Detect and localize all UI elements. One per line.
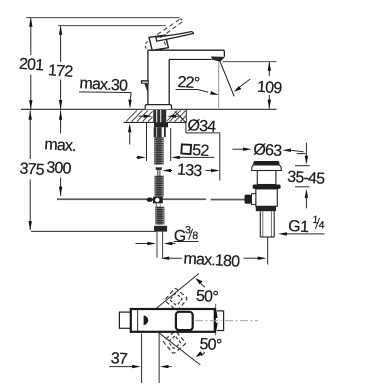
dimension 201 bbox=[18, 18, 44, 110]
hose end nut G3/8 bbox=[154, 226, 167, 232]
plan view body bbox=[131, 309, 215, 332]
svg-text:50°: 50° bbox=[195, 288, 218, 306]
svg-text:50°: 50° bbox=[199, 336, 222, 354]
handle swing dashed arc bbox=[145, 41, 148, 50]
drain flange bbox=[252, 165, 281, 171]
lever blade (solid, lowered) bbox=[156, 32, 194, 42]
water stream line 22deg bbox=[220, 61, 234, 96]
svg-text:Ø34: Ø34 bbox=[187, 117, 217, 136]
dimension arrows hole dia 34 bbox=[139, 115, 182, 118]
threaded shank below nut bbox=[154, 127, 166, 137]
svg-text:109: 109 bbox=[257, 79, 283, 98]
label 22deg with leader arrow bbox=[176, 74, 219, 95]
svg-text:201: 201 bbox=[18, 56, 44, 75]
label G3/8 with arrows bbox=[136, 224, 199, 245]
hose ferrule bbox=[156, 167, 162, 175]
svg-text:37: 37 bbox=[110, 350, 128, 368]
label dia34 with leader bbox=[175, 111, 220, 136]
svg-text:35-45: 35-45 bbox=[287, 169, 326, 188]
dimension dia63 bbox=[232, 141, 303, 160]
lever raised position (dashed) bbox=[157, 19, 183, 38]
countertop cross-section bbox=[21, 109, 277, 122]
plan view centerline bbox=[195, 320, 258, 322]
extension line second (lever tip ref) bbox=[58, 25, 166, 27]
supply hose braid lower bbox=[156, 207, 165, 225]
drain neck bbox=[257, 171, 276, 185]
extension line top (raised lever height ref) bbox=[26, 17, 180, 19]
dimension max.180 bbox=[161, 237, 268, 271]
dimension square52 bbox=[136, 142, 214, 160]
handle base block bbox=[149, 35, 169, 50]
curved pointer arrow to stream bbox=[234, 79, 250, 92]
thread stub below nut bbox=[157, 232, 163, 258]
drain body bbox=[256, 189, 277, 206]
mounting nut below counter bbox=[154, 122, 168, 127]
svg-text:172: 172 bbox=[48, 62, 74, 81]
svg-text:4: 4 bbox=[318, 219, 325, 231]
svg-text:375: 375 bbox=[19, 160, 45, 179]
pop-up rod knob on body bbox=[141, 80, 149, 93]
threaded shank through counter bbox=[153, 110, 166, 123]
svg-text:133: 133 bbox=[177, 161, 203, 180]
svg-text:52: 52 bbox=[192, 142, 210, 160]
plan view spout nose bbox=[119, 312, 130, 328]
drain bottom nut bbox=[256, 206, 276, 211]
supply hose braid middle bbox=[155, 176, 164, 197]
dimension 133 bbox=[162, 134, 219, 181]
svg-text:8: 8 bbox=[192, 230, 199, 242]
pop-up rod bbox=[57, 198, 245, 200]
plan view width arrows bbox=[214, 304, 218, 338]
50deg reference line lower bbox=[158, 332, 223, 365]
plan view end bracket bbox=[217, 311, 224, 331]
drain tailpipe bbox=[260, 211, 274, 237]
base plate bbox=[145, 105, 171, 110]
label max.30 with leader bbox=[79, 75, 132, 144]
svg-text:300: 300 bbox=[46, 159, 72, 178]
bottom reference line 375 bbox=[31, 230, 156, 232]
50deg reference line upper bbox=[156, 274, 218, 309]
dimension 109 bbox=[223, 62, 283, 109]
aerator at spout tip bbox=[212, 57, 225, 61]
rod joint at faucet bbox=[147, 197, 163, 207]
svg-text:max.180: max.180 bbox=[183, 250, 241, 270]
faucet body (side view) bbox=[148, 50, 169, 104]
drain o-ring bbox=[253, 185, 281, 189]
dimension 37 bbox=[109, 334, 171, 384]
svg-text:max.: max. bbox=[44, 136, 76, 155]
dimension 172 bbox=[48, 26, 74, 110]
spout arm bbox=[148, 50, 225, 59]
plan view aerator blob bbox=[144, 316, 149, 325]
dimension max.300 bbox=[44, 111, 76, 196]
vertical reference line from spout tip bbox=[218, 61, 220, 108]
label G1 1/4 with arrow bbox=[278, 214, 325, 236]
dashed handle square rotated upper bbox=[165, 288, 188, 311]
square52 extension lines bbox=[147, 123, 171, 161]
dashed handle square rotated lower bbox=[163, 331, 186, 354]
plan view handle square bbox=[176, 312, 193, 330]
supply hose braid upper bbox=[154, 137, 163, 165]
svg-text:Ø63: Ø63 bbox=[253, 141, 283, 160]
rod connector knob on drain bbox=[245, 194, 256, 205]
dimension 375 bbox=[19, 111, 45, 231]
dimension 35-45 bbox=[287, 143, 326, 209]
drain plug cap bbox=[253, 161, 279, 165]
